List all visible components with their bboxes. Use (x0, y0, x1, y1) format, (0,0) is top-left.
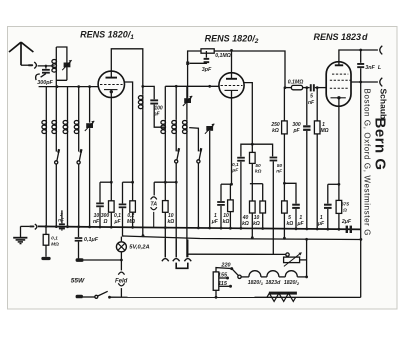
node antenna junction (45, 65, 48, 68)
svg-text:220: 220 (220, 263, 230, 269)
coil L5 (78, 120, 80, 152)
switch S3 (177, 150, 179, 160)
wire coil feeders (46, 87, 89, 123)
capacitor 1uF V2 (220, 184, 222, 201)
svg-text:50: 50 (277, 163, 283, 169)
grid bus tube1 (39, 86, 99, 88)
svg-text:nF: nF (308, 100, 315, 106)
node 250k AF split (283, 182, 286, 185)
svg-text:0,1MΩ: 0,1MΩ (288, 80, 304, 86)
svg-text:55W: 55W (71, 278, 85, 285)
wire to speaker jack L (361, 49, 378, 51)
tube V1 RENS1820/1 (98, 71, 124, 97)
input tank box (56, 47, 67, 80)
coil L1 antenna (55, 47, 57, 120)
tube V2 RENS1820/2 (219, 73, 244, 98)
capacitor 5nF series (310, 84, 312, 91)
heater jack hook 3 (187, 240, 189, 258)
resistor 0,1MOhm AF (291, 85, 302, 89)
wire 50nF to pot (188, 253, 286, 255)
heater winding 1823d (261, 276, 267, 278)
capacitor 0,1uF cathode (122, 182, 124, 203)
svg-text:2μF: 2μF (341, 219, 352, 225)
svg-text:kΩ: kΩ (272, 128, 279, 134)
heater winding 1820/1 (241, 276, 249, 278)
wire V3 anode (339, 50, 361, 65)
switch S1 (57, 151, 59, 161)
svg-text:Boston G, Oxford G, Westminste: Boston G, Oxford G, Westminster G (363, 89, 372, 236)
svg-text:RENS 1823d: RENS 1823d (313, 32, 368, 42)
coil L2 (45, 135, 47, 227)
wire volume net (241, 144, 273, 156)
resistor 50kOhm (251, 144, 253, 152)
wire mains upper (84, 259, 122, 261)
capacitor 300pF (306, 88, 308, 126)
wire 5k bar (284, 183, 296, 203)
svg-text:1823d: 1823d (266, 280, 282, 286)
resistor 300Ohm (110, 182, 112, 201)
wire V2 anode (231, 50, 233, 79)
trimmer C2 (86, 123, 93, 128)
svg-text:0,1μF: 0,1μF (84, 237, 99, 243)
capacitor 300pF (45, 66, 47, 69)
antenna (9, 42, 33, 65)
svg-text:kΩ: kΩ (223, 219, 230, 225)
coil L3 (55, 120, 57, 152)
wire anode2 to AF (285, 87, 291, 89)
barretter bar (269, 292, 297, 295)
capacitor 2nF (61, 210, 63, 223)
node AF drop (284, 86, 287, 89)
svg-text:kΩ: kΩ (242, 221, 249, 227)
capacitor 10nF (99, 182, 101, 202)
capacitor 0,1uF volume (237, 157, 245, 159)
svg-text:Bern G: Bern G (372, 118, 389, 171)
svg-text:0,1: 0,1 (51, 236, 58, 242)
svg-text:2: 2 (59, 212, 63, 218)
svg-text:50: 50 (255, 163, 261, 169)
svg-text:MΩ: MΩ (127, 219, 135, 225)
pot hum balance (286, 253, 289, 256)
wire osc top (188, 51, 201, 98)
svg-text:Ω: Ω (342, 207, 347, 213)
wire V2 diode out (244, 83, 253, 145)
heater winding 1820/2 (279, 276, 285, 278)
svg-text:3nF: 3nF (365, 65, 375, 71)
wire cathode bar V3 (328, 183, 339, 185)
svg-text:1820/2: 1820/2 (284, 280, 300, 286)
svg-text:kΩ: kΩ (253, 221, 260, 227)
wire cathode bar V2 (221, 183, 232, 185)
node pot tie (305, 276, 308, 279)
trimmer C osc (184, 98, 191, 103)
svg-text:pF: pF (292, 128, 300, 134)
node bus trimmer (88, 85, 91, 88)
resistor 40kOhm (251, 184, 253, 201)
svg-text:0,1: 0,1 (232, 162, 239, 168)
node osc junction (141, 85, 144, 88)
capacitor 0,1uF mains (78, 227, 80, 237)
resistor 1MOhm (316, 88, 318, 121)
coil L8 (175, 86, 177, 151)
wire cathode bar V1a (100, 181, 111, 183)
node bus2 L8 (175, 85, 178, 88)
capacitor 2uF (346, 226, 348, 233)
wire AF bar (250, 183, 263, 185)
svg-text:3pF: 3pF (202, 67, 212, 73)
svg-text:RENS 1820/2: RENS 1820/2 (205, 34, 259, 46)
resistor 675Ohm (338, 184, 340, 200)
svg-text:μF: μF (211, 219, 219, 225)
svg-text:675: 675 (341, 202, 349, 208)
node bus2 trimmer (208, 85, 211, 88)
mains terminal lower (76, 295, 83, 299)
heater jumper bracket (176, 263, 188, 269)
bus B heater (123, 236, 362, 240)
resistor 5kOhm (282, 201, 288, 213)
ground small (41, 257, 50, 260)
wire cathode bar V1b (123, 181, 133, 183)
selector lever (232, 269, 239, 276)
node output top (359, 49, 362, 52)
svg-text:TA: TA (150, 201, 157, 207)
resistor mains dropper (215, 290, 217, 297)
pickup TA connector (153, 182, 155, 195)
node volume junction (251, 143, 254, 146)
node selector bottom (215, 296, 218, 299)
svg-text:Schaub: Schaub (379, 89, 389, 120)
coil L7 (164, 86, 166, 200)
svg-text:5V,0,2A: 5V,0,2A (129, 244, 149, 250)
capacitor 50nF (270, 157, 278, 159)
capacitor 1uF AF (292, 204, 300, 206)
svg-text:kΩ: kΩ (167, 219, 174, 225)
wire ground to plug (21, 225, 30, 227)
wire V2 cathode (231, 90, 233, 184)
bus A chassis (38, 226, 361, 229)
switch S2 (79, 151, 81, 161)
capacitor 3nF (360, 50, 362, 63)
node grid V3 (316, 86, 319, 89)
resistor 250kOhm (283, 88, 285, 121)
field coil connector Feld (120, 260, 122, 270)
mains terminal upper (76, 258, 84, 262)
wire L9 tap (189, 128, 198, 152)
svg-text:0,1MΩ: 0,1MΩ (215, 53, 231, 59)
node mains switch out (108, 296, 111, 299)
coil L4 (67, 120, 69, 228)
svg-text:μF: μF (231, 168, 239, 174)
resistor 10kOhm V2 (229, 184, 231, 200)
node jack tie (359, 81, 362, 84)
svg-text:μF: μF (296, 221, 304, 227)
resistor zigzag mains (267, 293, 296, 301)
resistor 0,2MOhm (132, 182, 134, 201)
svg-text:RENS 1820/1: RENS 1820/1 (80, 29, 134, 41)
svg-text:1820/1: 1820/1 (248, 280, 264, 286)
resistor 0,1MOhm leak (45, 227, 47, 235)
oscillator coil L6 (142, 86, 144, 235)
switch S4 (199, 150, 201, 160)
wire plug to tank (38, 65, 55, 67)
resistor 10kOhm TA (163, 201, 169, 213)
wire V1 anode (111, 49, 143, 87)
capacitor 1uF V3 (327, 184, 329, 203)
wire antenna to plug (21, 64, 28, 66)
svg-text:pF: pF (152, 112, 160, 118)
svg-text:115: 115 (218, 281, 228, 287)
svg-text:μF: μF (113, 219, 121, 225)
svg-text:kΩ: kΩ (255, 169, 262, 175)
chassis plug (29, 226, 34, 228)
wire V1 screen right (124, 82, 133, 182)
capacitor 100pF (143, 86, 154, 99)
ground main (20, 226, 22, 237)
selector taps (216, 268, 231, 272)
node lamp junction (120, 259, 123, 262)
heater jack hook 1 (164, 239, 166, 257)
jack L bottom (380, 78, 383, 87)
jack L top (380, 46, 383, 55)
svg-text:MΩ: MΩ (51, 241, 59, 247)
trimmer C bank2 (206, 126, 213, 131)
capacitor 3pF (205, 51, 207, 58)
heater jack hook 2 (175, 239, 177, 257)
wire V3 cathode (338, 98, 340, 185)
svg-text:μF: μF (317, 221, 325, 227)
node 300pF drop (305, 86, 308, 89)
antenna plug (28, 64, 33, 66)
wire heater bottom (110, 296, 361, 298)
svg-text:L: L (378, 65, 381, 71)
switch mains (95, 295, 98, 298)
lamp 5V 0,2A (120, 237, 122, 242)
svg-text:Feld: Feld (115, 278, 128, 284)
coil L9 (186, 86, 188, 257)
wire TA link bar (154, 181, 176, 183)
node osc tie square (186, 62, 189, 65)
wire mains lower (83, 296, 95, 298)
node dots bus A (45, 225, 341, 231)
svg-text:Ω: Ω (102, 219, 107, 225)
resistor 10kOhm AF (262, 184, 264, 201)
resistor 0,1MOhm top (201, 49, 214, 53)
node V1 cathode dot (110, 90, 113, 93)
svg-text:MΩ: MΩ (320, 128, 328, 134)
second antenna socket (36, 74, 40, 80)
trimmer C1 (64, 63, 71, 68)
node tank to bus (56, 85, 59, 88)
grid bus tube2 (165, 85, 219, 87)
wire speaker return (360, 68, 362, 297)
tube V3 RENS1823d (326, 62, 351, 107)
svg-text:155: 155 (218, 272, 228, 278)
svg-text:300pF: 300pF (37, 80, 53, 86)
node dots bus B (142, 234, 363, 241)
svg-text:5: 5 (310, 94, 313, 100)
svg-text:kΩ: kΩ (286, 221, 293, 227)
wire V1 cathode (110, 90, 112, 183)
svg-text:nF: nF (93, 219, 100, 225)
node bus L4 (77, 85, 80, 88)
